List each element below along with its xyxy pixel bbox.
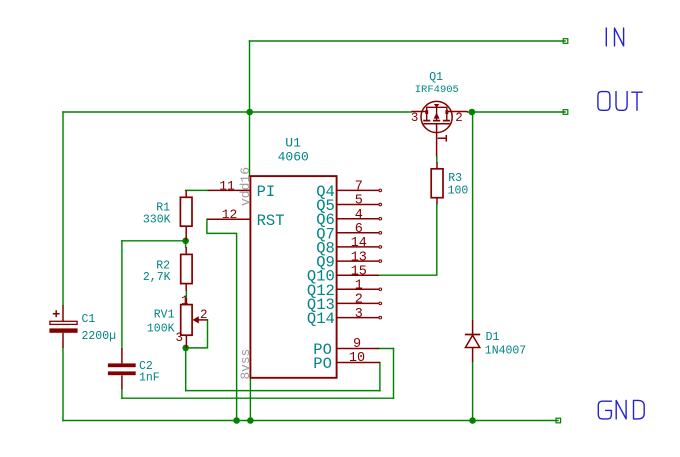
pin 4 Q6 (316, 208, 381, 229)
svg-text:11: 11 (219, 178, 235, 193)
wire R1/R2 junction to C2 horizontal (122, 240, 186, 242)
wire RV1 junction down (185, 348, 187, 391)
svg-text:10: 10 (349, 351, 365, 366)
IC U1 4060 body (238, 135, 337, 379)
svg-text:R3: R3 (448, 172, 462, 185)
pin 12 RST (207, 207, 285, 230)
svg-text:Q14: Q14 (307, 310, 335, 328)
wire left rail lower (62, 348, 64, 421)
svg-text:1: 1 (355, 279, 363, 294)
potentiometer RV1 (147, 294, 208, 348)
pin 14 Q8 (316, 236, 381, 257)
wire RST jog (207, 219, 237, 420)
wire R2 bottom to RV1 top (185, 291, 187, 298)
svg-text:R1: R1 (156, 201, 170, 214)
svg-text:2: 2 (200, 308, 208, 322)
svg-text:2,7K: 2,7K (143, 271, 171, 284)
resistor R3 (431, 162, 468, 204)
wire pin10 drop (379, 363, 381, 391)
wire Q1 gate to R3 (436, 157, 438, 163)
node OUT open end (563, 110, 568, 115)
pin 2 Q13 (307, 293, 382, 314)
svg-text:7: 7 (355, 180, 363, 195)
node IN label (606, 28, 623, 46)
pin 2 Q1 (448, 111, 468, 113)
wire pin9 link (379, 348, 393, 350)
transistor Q1 IRF4905 (411, 71, 468, 157)
wire rail y112 right segment to OUT (468, 111, 565, 113)
svg-text:8vss: 8vss (238, 349, 253, 380)
svg-text:5: 5 (355, 194, 363, 209)
svg-text:12: 12 (222, 207, 238, 222)
svg-text:4: 4 (355, 208, 363, 223)
svg-text:4060: 4060 (278, 149, 309, 164)
pin 3 Q1 (411, 111, 425, 113)
svg-text:3: 3 (411, 111, 419, 125)
svg-text:U1: U1 (285, 135, 301, 150)
svg-text:2200µ: 2200µ (82, 330, 117, 343)
wire RV1 wiper loop (186, 320, 208, 348)
svg-text:1: 1 (181, 294, 189, 308)
pin 6 Q7 (316, 222, 381, 243)
node junction OUT/D1 (469, 109, 476, 116)
wire left rail upper (62, 112, 64, 305)
pin 1 Q12 (307, 279, 382, 300)
node IN open end (563, 39, 568, 44)
capacitor C1 (49, 305, 116, 348)
pin 5 Q5 (316, 194, 381, 215)
svg-text:15: 15 (351, 264, 367, 279)
svg-text:1nF: 1nF (139, 371, 160, 384)
svg-text:330K: 330K (143, 214, 171, 227)
wire VDD drop to U1 (249, 112, 251, 176)
wire rail y112 left segment (63, 111, 411, 113)
pin 1 Q1 gate lead (436, 124, 438, 157)
svg-text:13: 13 (351, 250, 367, 265)
svg-text:RV1: RV1 (154, 309, 175, 322)
capacitor C2 (108, 348, 160, 389)
pin 10 PO (313, 351, 380, 373)
svg-text:PO: PO (313, 355, 332, 373)
wire R1 bottom to R2 top (185, 241, 187, 247)
node junction R1/R2/C2 (182, 238, 189, 245)
svg-text:RST: RST (257, 212, 285, 230)
node GND label (598, 400, 644, 419)
wire IN vertical drop (249, 41, 251, 112)
wire pin9 drop (393, 349, 395, 399)
pin 7 Q4 (316, 180, 381, 201)
svg-text:Q1: Q1 (429, 71, 443, 84)
node junction D1/GND (469, 417, 476, 424)
wire C2 top drop (121, 241, 123, 348)
wire VSS drop to GND (249, 378, 251, 421)
node junction IN/rail (246, 109, 253, 116)
svg-text:9: 9 (353, 337, 361, 352)
svg-text:C1: C1 (82, 313, 96, 326)
svg-text:PI: PI (257, 183, 276, 201)
pin 9 PO (313, 337, 379, 359)
wire C2 bottom drop (121, 389, 123, 398)
wire bottom horizontal to pin9 (122, 397, 394, 399)
node junction RV1 bottom (182, 345, 189, 352)
wire OUT junction to D1 (472, 112, 474, 320)
svg-text:100: 100 (448, 185, 469, 198)
svg-text:1N4007: 1N4007 (485, 345, 526, 358)
pin 15 Q10 (307, 264, 379, 285)
svg-text:14: 14 (351, 236, 367, 251)
svg-text:2: 2 (355, 293, 363, 308)
svg-text:6: 6 (355, 222, 363, 237)
svg-text:3: 3 (355, 307, 363, 322)
pin 13 Q9 (316, 250, 381, 271)
svg-text:100K: 100K (147, 322, 175, 335)
diode D1 (465, 320, 526, 362)
wire IN horizontal (250, 40, 566, 42)
pin 3 Q14 (307, 307, 382, 328)
node OUT label (598, 92, 642, 111)
resistor R1 (143, 190, 192, 240)
wire Q10 to R3 (379, 205, 437, 276)
svg-text:2: 2 (455, 111, 463, 125)
svg-text:3: 3 (176, 331, 184, 345)
node GND open end (556, 418, 561, 423)
wire bottom horizontal to pin10 (186, 390, 380, 392)
wire D1 bottom to GND (472, 362, 474, 420)
resistor R2 (143, 247, 192, 291)
node junction VSS/GND (247, 417, 254, 424)
node junction RST/GND (233, 417, 240, 424)
svg-text:vdd16: vdd16 (238, 167, 253, 206)
wire PI to R1 (186, 189, 208, 191)
svg-text:D1: D1 (486, 331, 500, 344)
pin 11 PI (208, 178, 275, 201)
wire GND rail (63, 420, 558, 422)
svg-text:IRF4905: IRF4905 (415, 84, 459, 96)
